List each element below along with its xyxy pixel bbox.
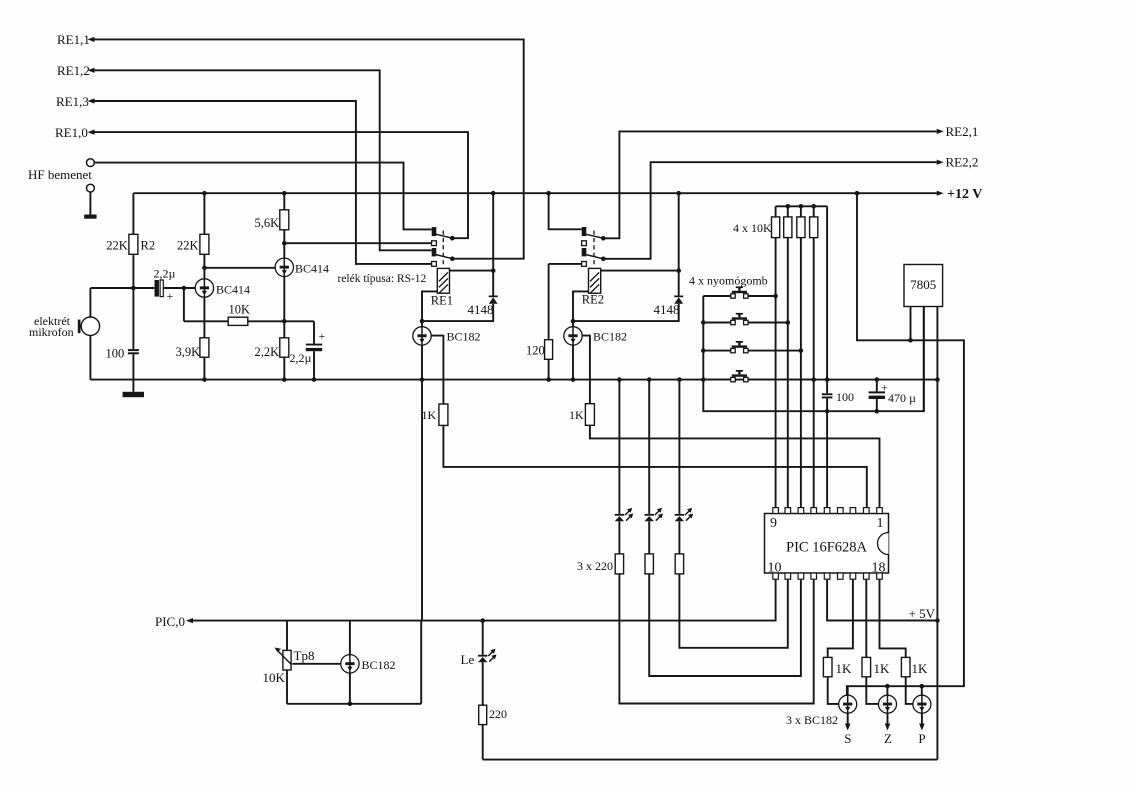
svg-text:22K: 22K — [177, 239, 199, 253]
svg-text:1: 1 — [877, 516, 884, 531]
svg-text:RE1: RE1 — [431, 294, 453, 308]
svg-text:BC182: BC182 — [362, 658, 396, 672]
svg-text:BC182: BC182 — [447, 330, 481, 344]
svg-text:BC414: BC414 — [295, 262, 329, 276]
svg-text:100: 100 — [106, 347, 125, 361]
svg-text:4 x nyomógomb: 4 x nyomógomb — [689, 274, 768, 288]
svg-text:1K: 1K — [912, 661, 929, 676]
svg-text:10K: 10K — [263, 670, 286, 685]
svg-text:PIC,0: PIC,0 — [155, 614, 185, 629]
svg-text:BC414: BC414 — [216, 283, 250, 297]
svg-text:+: + — [881, 381, 888, 395]
svg-text:10K: 10K — [229, 303, 251, 317]
svg-text:2,2µ: 2,2µ — [154, 267, 176, 281]
svg-text:120: 120 — [526, 344, 545, 358]
svg-text:P: P — [918, 731, 925, 746]
svg-text:3 x 220: 3 x 220 — [577, 559, 613, 573]
svg-text:100: 100 — [836, 390, 854, 404]
svg-text:Le: Le — [461, 652, 475, 667]
svg-text:RE1,0: RE1,0 — [55, 125, 88, 140]
svg-text:2,2µ: 2,2µ — [290, 351, 312, 365]
svg-text:+: + — [167, 289, 174, 303]
svg-text:220: 220 — [489, 707, 507, 721]
svg-text:relék típusa: RS-12: relék típusa: RS-12 — [338, 273, 427, 285]
svg-text:1K: 1K — [569, 408, 584, 422]
svg-text:1K: 1K — [874, 661, 891, 676]
svg-text:7805: 7805 — [910, 277, 936, 292]
svg-text:Tp8: Tp8 — [294, 648, 315, 663]
svg-text:RE1,3: RE1,3 — [56, 94, 89, 109]
svg-text:5,6K: 5,6K — [255, 216, 280, 230]
svg-text:3 x BC182: 3 x BC182 — [786, 713, 838, 727]
svg-text:+12 V: +12 V — [947, 187, 982, 202]
svg-text:4 x 10K: 4 x 10K — [733, 221, 772, 235]
svg-text:4148: 4148 — [654, 302, 680, 317]
svg-text:RE2,1: RE2,1 — [946, 124, 979, 139]
svg-text:mikrofon: mikrofon — [29, 325, 74, 339]
svg-text:BC182: BC182 — [593, 330, 627, 344]
svg-text:RE1,2: RE1,2 — [57, 63, 90, 78]
svg-text:RE2,2: RE2,2 — [946, 155, 979, 170]
svg-text:HF bemenet: HF bemenet — [28, 167, 92, 182]
svg-text:470 µ: 470 µ — [888, 391, 916, 405]
svg-text:22K: 22K — [106, 239, 128, 253]
svg-text:4148: 4148 — [468, 302, 494, 317]
svg-text:1K: 1K — [836, 661, 853, 676]
svg-text:1K: 1K — [422, 408, 437, 422]
svg-text:Z: Z — [884, 731, 892, 746]
svg-text:R2: R2 — [141, 239, 156, 253]
svg-text:PIC 16F628A: PIC 16F628A — [786, 540, 868, 556]
svg-text:3,9K: 3,9K — [176, 345, 201, 359]
svg-text:9: 9 — [770, 516, 777, 531]
svg-text:RE2: RE2 — [582, 293, 604, 307]
svg-text:+: + — [319, 329, 326, 343]
svg-text:+ 5V: + 5V — [909, 606, 936, 621]
svg-text:S: S — [844, 731, 851, 746]
svg-text:2,2K: 2,2K — [255, 345, 280, 359]
svg-text:RE1,1: RE1,1 — [57, 32, 90, 47]
